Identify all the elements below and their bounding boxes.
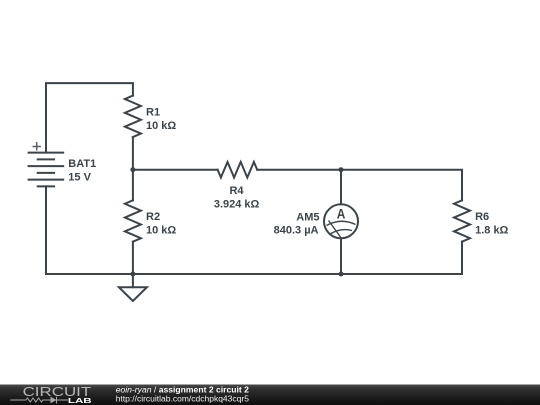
svg-text:1.8 kΩ: 1.8 kΩ — [475, 224, 508, 236]
svg-text:R6: R6 — [475, 211, 489, 223]
svg-text:BAT1: BAT1 — [68, 158, 96, 170]
svg-text:10 kΩ: 10 kΩ — [146, 120, 176, 132]
svg-text:LAB: LAB — [68, 396, 92, 405]
svg-text:R4: R4 — [229, 185, 244, 197]
svg-text:840.3 µA: 840.3 µA — [274, 224, 319, 236]
svg-text:R1: R1 — [146, 107, 160, 119]
svg-text:A: A — [337, 207, 346, 223]
svg-text:AM5: AM5 — [296, 212, 319, 224]
svg-text:3.924 kΩ: 3.924 kΩ — [214, 199, 260, 211]
svg-text:http://circuitlab.com/cdchpkq4: http://circuitlab.com/cdchpkq43cqr5 — [116, 394, 250, 404]
svg-text:10 kΩ: 10 kΩ — [146, 224, 176, 236]
svg-text:R2: R2 — [146, 211, 160, 223]
svg-text:15 V: 15 V — [68, 172, 91, 184]
